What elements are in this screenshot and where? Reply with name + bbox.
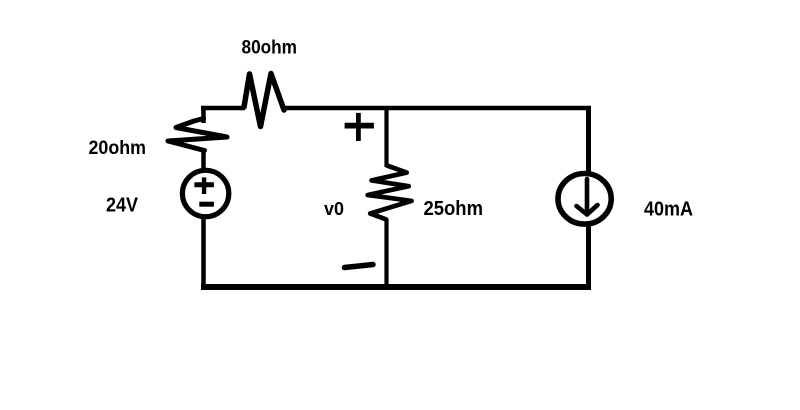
- wire left vertical stub below top-left corner: [201, 106, 206, 123]
- minus polarity mark v0: [345, 265, 374, 268]
- wire top left segment: [201, 106, 245, 111]
- svg-text:20ohm: 20ohm: [89, 137, 147, 159]
- wire top right segment: [282, 106, 591, 111]
- minus mark inside voltage source: [199, 202, 214, 207]
- plus mark inside voltage source: [194, 177, 214, 194]
- wire below current source: [586, 224, 591, 290]
- svg-text:24V: 24V: [106, 194, 139, 216]
- current source I1 circle: [558, 174, 611, 225]
- svg-text:25ohm: 25ohm: [424, 198, 484, 220]
- wire middle vertical lower: [384, 219, 388, 290]
- svg-text:40mA: 40mA: [644, 198, 693, 220]
- voltage source V1 circle: [182, 170, 228, 216]
- plus polarity mark v0: [345, 113, 374, 141]
- wire bottom: [201, 284, 591, 290]
- svg-text:80ohm: 80ohm: [242, 37, 298, 59]
- wire between 20ohm and voltage source: [201, 149, 206, 170]
- wire right vertical upper: [586, 106, 591, 172]
- wire middle vertical upper: [384, 106, 388, 167]
- resistor 25ohm (zigzag): [368, 166, 412, 220]
- arrow inside current source: [577, 179, 598, 215]
- resistor 20ohm (zigzag): [168, 119, 227, 151]
- svg-text:v0: v0: [324, 198, 344, 219]
- wire below voltage source: [201, 216, 206, 290]
- resistor 80ohm (zigzag): [244, 74, 284, 127]
